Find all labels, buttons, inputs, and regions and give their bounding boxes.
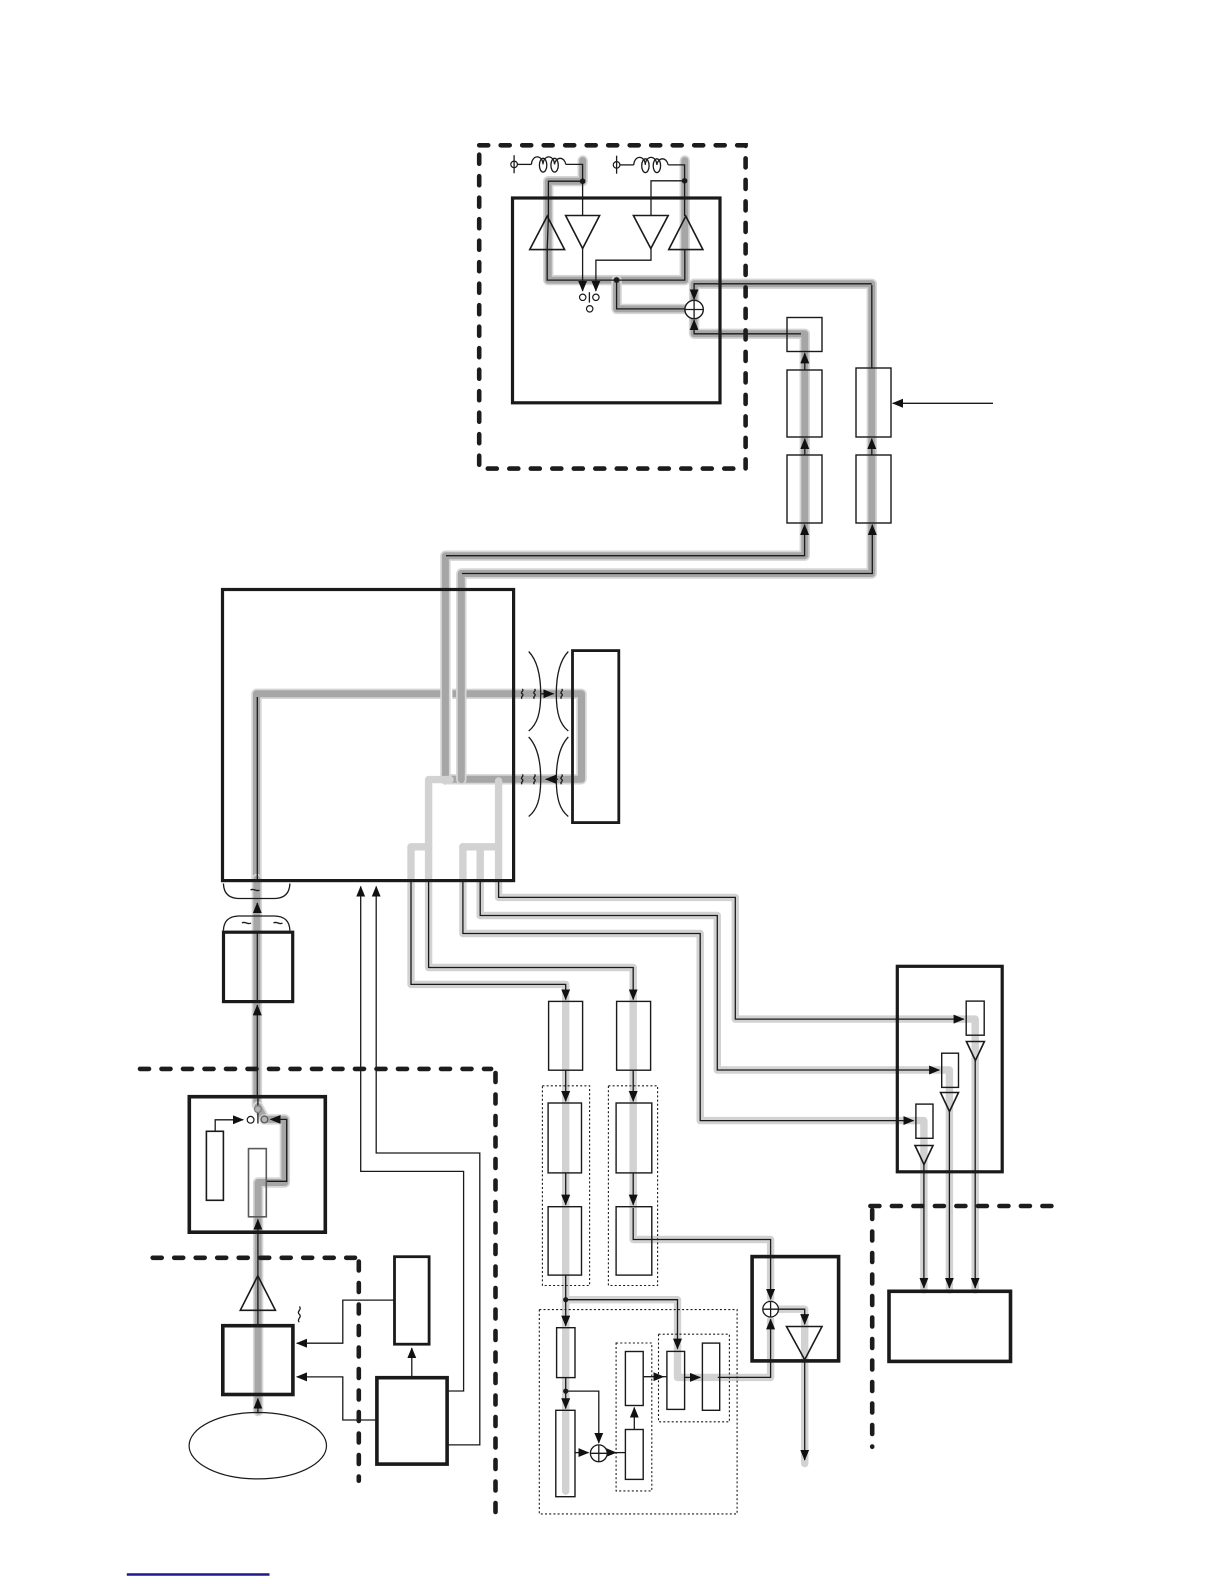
arrow left column into rect A <box>565 1275 567 1326</box>
arrow below big box into coupler bracket <box>256 903 258 913</box>
right box rect 1 <box>966 1001 984 1035</box>
wire junction1 to up-amp1 output <box>548 181 582 216</box>
arrow coupling row2 <box>546 778 558 780</box>
arrow rect A to rect B <box>565 1378 567 1409</box>
junction dot mixer branch <box>614 277 620 283</box>
wire below top switch contact <box>257 1113 259 1124</box>
wire band: switch junction to mixer M1 left input <box>617 280 686 309</box>
dotted box left column <box>542 1086 589 1286</box>
output amp triangle in modulator box <box>787 1327 823 1360</box>
RX rect G <box>549 1001 583 1070</box>
switch left contact circle <box>247 1116 254 1123</box>
junction dot 2 <box>682 178 688 184</box>
right box amp 2 <box>941 1093 959 1112</box>
arrow output amp down out of box <box>804 1360 806 1460</box>
arrow H to dotted rect R1 <box>632 1070 634 1101</box>
wire band: mixer M1 top input from right filter column and H2/V2 run <box>461 284 872 780</box>
arrow antenna to matching box <box>257 1399 259 1413</box>
inductor L1 <box>532 157 566 172</box>
wire up-amp1 base bus to up-amp2 base <box>547 249 685 280</box>
dashed boundary RF section vertical <box>493 1073 498 1514</box>
dashed boundary antenna section vertical <box>356 1262 361 1481</box>
switch contact circle a <box>580 294 586 300</box>
wire L1 to down-amp1 input <box>566 164 583 215</box>
switch control rect left <box>206 1131 223 1200</box>
wire band: terminal1 S-bend through up-amp1, bottom bus to up-amp2/terminal2 <box>548 161 685 281</box>
light band: control taps inside big box to right control box <box>463 781 963 1121</box>
arrow R2 to R1 small box <box>804 353 806 370</box>
wire L2 to junction2 <box>668 165 684 216</box>
arrow switch box left contact feed <box>215 1120 243 1132</box>
RX rect H <box>617 1001 651 1070</box>
arrow switch blade rect up from below <box>257 1220 259 1326</box>
up-amp1 triangle <box>530 216 565 250</box>
arrow control line 2 from control box to big box <box>376 887 480 1445</box>
antenna ellipse <box>189 1413 326 1479</box>
adder M2 circle-plus <box>590 1445 607 1462</box>
arrow rect E to rect F <box>685 1376 701 1378</box>
arrow down-amp2 to switch contact b <box>596 249 651 292</box>
coupler bracket open-down above module box <box>223 916 290 931</box>
inductor L2 <box>634 157 668 172</box>
right box rect 2 <box>942 1053 959 1087</box>
wire junction2 to down-amp2 input <box>651 181 685 216</box>
filter rect R3 <box>787 455 822 523</box>
dashed boundary interface section vertical <box>870 1210 875 1447</box>
rect C <box>625 1352 643 1406</box>
light band: row2 tap down to RX rect feeds G/H <box>411 780 633 1000</box>
dotted rect R2 <box>616 1207 652 1275</box>
terminal 1 connector <box>511 155 518 173</box>
right box rect 3 <box>916 1104 933 1138</box>
wire mixer bottom band to small box R1 <box>787 333 801 335</box>
arrow junction to rect E <box>566 1300 678 1349</box>
rect E <box>667 1351 685 1409</box>
wire switch pole link <box>588 292 590 302</box>
wire up-amp1 apex hidden <box>547 216 548 249</box>
coupling arcs row1 <box>521 652 568 732</box>
wire through small module box <box>256 931 258 1001</box>
arrow R5 to R4 <box>871 439 873 455</box>
arrow right box output 3 to interface box <box>923 1163 925 1289</box>
down-amp2 triangle <box>633 216 668 249</box>
control lower box <box>377 1378 447 1464</box>
arrow right box output 2 to interface box <box>948 1112 950 1289</box>
arrow switch box right contact feed <box>267 1119 287 1181</box>
arrow control step 2 into right box rect <box>480 879 939 1070</box>
dotted rect R1 <box>616 1103 652 1173</box>
right box amp 3 <box>915 1146 933 1165</box>
junction dot adder branch <box>563 1389 568 1394</box>
wire big box bottom stub <box>256 697 258 879</box>
wire right column top vertical <box>871 285 873 368</box>
junction dot left column <box>563 1297 568 1302</box>
arrow into mixer M1 top from right column band <box>694 284 872 300</box>
dotted rect L1 <box>548 1103 581 1173</box>
arrow R3 to R2 <box>804 439 806 455</box>
dashed boundary interface section horizontal <box>870 1204 1062 1209</box>
synth tall box <box>395 1257 430 1345</box>
down-amp1 triangle <box>566 216 600 249</box>
up-amp2 triangle <box>669 216 703 250</box>
arrow external input into R4 <box>893 402 993 404</box>
RF squiggle mark <box>298 1307 300 1323</box>
light band: left baseband column down to adder chain <box>566 999 678 1491</box>
arrow rect C to rect E <box>643 1376 663 1378</box>
switch unit box <box>189 1097 325 1233</box>
light band: adder M3 output through amp down <box>779 1309 805 1463</box>
wire band: main TX/RX path big box to transformer row1/row2 <box>257 694 582 879</box>
filter rect R5 <box>856 455 891 523</box>
rect A <box>557 1328 575 1378</box>
dotted box CD group <box>616 1343 652 1491</box>
arrow RX feed into rect H <box>429 879 634 1000</box>
front-end module box <box>513 198 721 403</box>
adder M3 circle-plus <box>763 1301 779 1317</box>
dotted box baseband big <box>539 1310 737 1514</box>
arrow into mixer M1 bottom <box>694 320 787 334</box>
arrow control line into matching box lower <box>297 1377 377 1420</box>
arrow adder M2 to rect D group <box>607 1452 616 1454</box>
arrow control line into matching box upper <box>297 1300 395 1343</box>
arrow control line 1 from control box to big box <box>361 887 464 1392</box>
arrow G to dotted rect L1 <box>565 1070 567 1101</box>
switch top contact gray circle <box>255 1106 262 1113</box>
mixer M1 circle-plus <box>685 300 703 318</box>
arrow control box to synth box <box>411 1348 413 1377</box>
dotted box right column <box>608 1086 657 1286</box>
dotted rect L2 <box>548 1207 581 1275</box>
dashed box around front-end <box>479 145 745 468</box>
wire terminal2 to inductor L2 <box>620 164 634 166</box>
rect B <box>556 1410 575 1496</box>
arrow adder M3 to output amp <box>778 1309 804 1324</box>
wire switch junction to mixer M1 left <box>617 280 686 309</box>
small module box <box>224 932 293 1001</box>
wire terminal1 to inductor L1 <box>517 163 531 165</box>
junction dot 1 <box>580 178 586 184</box>
arrow rect B to adder M2 left <box>575 1452 589 1454</box>
light band: right baseband column to adder M3 top <box>633 999 770 1298</box>
wire hop gap on row1 at V1 crossing <box>449 688 453 701</box>
rect D <box>625 1430 643 1480</box>
arrow down-amp1 to switch contact a <box>582 249 584 292</box>
arrow control step 3 into right box rect <box>463 879 914 1121</box>
light band: inside right control box to amps <box>913 1019 975 1290</box>
filter rect R4 <box>856 368 891 437</box>
filter rect R1 small <box>787 318 822 352</box>
arrow junction to adder M2 top <box>566 1391 599 1443</box>
dashed boundary RF section horizontal <box>140 1067 491 1072</box>
matching box <box>223 1326 293 1395</box>
dashed boundary antenna section horizontal <box>153 1256 355 1261</box>
wire band: mixer M1 bottom input from left filter column and H1/V1 run <box>445 319 804 780</box>
antenna amp triangle <box>240 1276 275 1311</box>
arrow into small module box from switch unit <box>256 1005 258 1096</box>
coupling arcs row2 <box>521 737 568 817</box>
arrow right column bend to adder M3 top <box>633 1208 770 1299</box>
wire band: main antenna path below big box <box>257 879 285 1411</box>
wire switch box top contact feed <box>257 1097 259 1106</box>
wire H2 run with arrow up into R5 <box>462 525 872 574</box>
switch right contact gray circle <box>261 1116 268 1123</box>
transceiver big box <box>223 590 514 881</box>
transformer secondary box <box>573 651 619 823</box>
right control big box <box>897 966 1002 1172</box>
switch contact circle b <box>593 294 599 300</box>
arrow rect F to adder M3 bottom <box>718 1319 771 1377</box>
arrow coupling row1 <box>542 693 554 695</box>
arrow RX feed into rect G <box>411 879 566 1000</box>
arrow rect D to rect C <box>633 1408 635 1430</box>
arrow control step 1 into right box rect <box>499 879 964 1019</box>
modulator box with adder M3 <box>752 1257 839 1361</box>
dotted box EF group <box>659 1334 730 1422</box>
switch pole circle <box>587 306 593 312</box>
arrow dotted R1 to R2 <box>632 1173 634 1205</box>
hyperlink underline bottom left <box>127 1573 270 1576</box>
arrow right box output 1 to interface box <box>974 1061 976 1289</box>
coupler bracket open-up below big box <box>223 884 290 899</box>
terminal 2 connector <box>613 156 620 174</box>
rect F <box>702 1343 719 1410</box>
arrow dotted L1 to L2 <box>565 1173 567 1205</box>
switch blade rect <box>249 1149 267 1217</box>
filter rect R2 <box>787 370 822 437</box>
light band: E/F chain to adder M3 bottom input <box>678 1320 771 1377</box>
right box amp 1 <box>966 1042 984 1061</box>
interface box bottom right <box>889 1291 1011 1361</box>
wire H1 run with arrow up into R3 <box>446 525 805 556</box>
